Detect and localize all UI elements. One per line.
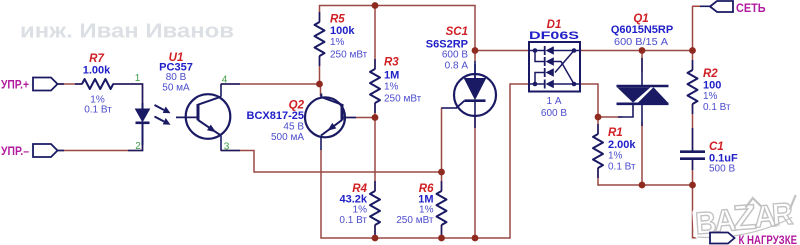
node Q1 MT1 rail bbox=[639, 182, 646, 189]
port СЕТЬ pin stub bbox=[700, 5, 710, 7]
watermark BAZAR logo bbox=[694, 195, 799, 242]
capacitor C1 bbox=[680, 150, 705, 160]
svg-text:50 мА: 50 мА bbox=[162, 83, 190, 94]
node R1 / gate bbox=[595, 114, 602, 121]
svg-text:1.00k: 1.00k bbox=[83, 65, 111, 77]
wire R3 bottom to base node bbox=[374, 103, 376, 118]
svg-text:СЕТЬ: СЕТЬ bbox=[736, 1, 766, 15]
wire SC1 cathode down bbox=[474, 116, 476, 238]
svg-text:0.1 Вт: 0.1 Вт bbox=[608, 162, 636, 173]
wire R3 top leg bbox=[374, 6, 376, 70]
opto pin3 lead bbox=[221, 150, 240, 152]
wire bridge plus to mains rail bbox=[580, 50, 693, 52]
label R4 bbox=[339, 183, 367, 226]
svg-text:2.00k: 2.00k bbox=[608, 139, 636, 151]
wire R1 node to Q1 gate bbox=[598, 116, 622, 118]
node R5 / Q2 collector / pin4 bbox=[316, 81, 323, 88]
node R4 bottom rail bbox=[372, 235, 379, 242]
node Q2 base / R3 / R4 bbox=[372, 114, 379, 121]
connector СЕТЬ bbox=[710, 1, 733, 12]
svg-text:0.8 А: 0.8 А bbox=[445, 61, 469, 72]
wire Q2 emitter down bbox=[320, 150, 322, 238]
label Q2 bbox=[247, 100, 305, 144]
node R6 top / gate riser bbox=[438, 169, 445, 176]
svg-text:250 мВт: 250 мВт bbox=[396, 215, 434, 226]
svg-text:1%: 1% bbox=[608, 151, 623, 162]
wire Q1 MT2 bbox=[641, 51, 643, 73]
opto pin4 lead bbox=[221, 83, 240, 85]
wire to К НАГРУЗКЕ bbox=[693, 185, 711, 238]
wire bridge minus jog to R1 node bbox=[580, 84, 598, 117]
svg-text:1%: 1% bbox=[353, 205, 368, 216]
resistor R5 leads bbox=[319, 12, 321, 66]
wire C1 bottom bbox=[692, 160, 694, 185]
wire R2 top lead bbox=[692, 51, 694, 71]
svg-text:1%: 1% bbox=[703, 91, 718, 102]
wire bottom right rail bbox=[598, 184, 693, 186]
svg-text:500 В: 500 В bbox=[709, 164, 735, 175]
svg-text:R1: R1 bbox=[608, 127, 623, 139]
svg-text:1 А: 1 А bbox=[546, 96, 561, 107]
wire УПР.− to pin2 bbox=[58, 150, 143, 152]
svg-text:1M: 1M bbox=[384, 70, 399, 82]
svg-text:100: 100 bbox=[703, 80, 721, 92]
svg-text:0.1 Вт: 0.1 Вт bbox=[339, 215, 367, 226]
wire R7 to opto LED pin1 bbox=[113, 84, 143, 103]
triac Q1 bbox=[617, 58, 669, 126]
wire opto pin3 to R6 top bbox=[221, 151, 442, 173]
svg-text:45 В: 45 В bbox=[283, 122, 304, 133]
svg-text:SC1: SC1 bbox=[446, 26, 468, 38]
wire R4 bottom bbox=[374, 225, 376, 238]
svg-text:Q6015N5RP: Q6015N5RP bbox=[611, 24, 673, 36]
opto U1 light arrows bbox=[155, 105, 171, 125]
resistor R4 leads bbox=[374, 181, 376, 237]
wire node to bridge AC1 bbox=[475, 50, 529, 52]
resistor R7 bbox=[82, 79, 113, 89]
svg-text:250 мВт: 250 мВт bbox=[384, 94, 422, 105]
wire R5 bottom to node bbox=[319, 56, 321, 84]
svg-text:100k: 100k bbox=[330, 25, 355, 37]
wire Q2 collector bbox=[320, 84, 322, 96]
node top rail / R3 bbox=[372, 2, 379, 9]
svg-text:К НАГРУЗКЕ: К НАГРУЗКЕ bbox=[739, 233, 798, 245]
label R3 bbox=[384, 57, 422, 105]
resistor R1 bbox=[593, 134, 603, 168]
svg-text:2: 2 bbox=[135, 141, 141, 152]
resistor R2 bbox=[688, 70, 698, 104]
transistor Q2 base lead bbox=[343, 117, 356, 119]
svg-text:600 В: 600 В bbox=[541, 108, 567, 119]
svg-text:1%: 1% bbox=[384, 82, 399, 93]
node SC1 cathode rail bbox=[472, 235, 479, 242]
svg-text:600 В/15 А: 600 В/15 А bbox=[614, 37, 668, 48]
svg-text:1: 1 bbox=[135, 73, 141, 84]
bridge diodes bbox=[546, 46, 554, 88]
wire СЕТЬ riser bbox=[693, 6, 711, 50]
svg-text:R2: R2 bbox=[703, 68, 718, 80]
wire base node to R4 bbox=[374, 118, 376, 192]
thyristor SC1 bbox=[442, 61, 497, 128]
label R1 bbox=[608, 127, 636, 173]
svg-text:500 мА: 500 мА bbox=[271, 132, 304, 143]
svg-text:1%: 1% bbox=[419, 205, 434, 216]
svg-text:R: R bbox=[771, 196, 794, 232]
svg-text:600 В: 600 В bbox=[442, 50, 468, 61]
svg-text:инж. Иван Иванов: инж. Иван Иванов bbox=[20, 21, 234, 43]
transistor Q2 bbox=[305, 94, 346, 151]
label Q1 bbox=[611, 13, 673, 48]
resistor R7 pin leads bbox=[75, 83, 82, 85]
node C1 bottom rail bbox=[689, 182, 696, 189]
wire Q2 base bbox=[346, 117, 376, 119]
connector УПР.− bbox=[33, 144, 58, 157]
connector УПР.+ bbox=[33, 78, 58, 91]
node SC1 anode bbox=[472, 47, 479, 54]
resistor R2 leads bbox=[692, 60, 694, 114]
svg-text:0.1 Вт: 0.1 Вт bbox=[84, 105, 112, 116]
label R6 bbox=[396, 183, 434, 226]
svg-text:1%: 1% bbox=[330, 37, 345, 48]
resistor R1 leads bbox=[597, 124, 599, 178]
svg-text:250 мВт: 250 мВт bbox=[330, 50, 368, 61]
opto U1 phototransistor bbox=[176, 84, 230, 151]
pin lead overlays (navy) bbox=[58, 6, 711, 238]
wire R5 top leg bbox=[319, 6, 321, 23]
svg-text:R7: R7 bbox=[89, 53, 104, 65]
wire R6 riser to SC1 gate bbox=[441, 108, 443, 172]
svg-text:УПР.–: УПР.– bbox=[1, 144, 29, 158]
wire LED bottom pin2 bbox=[142, 145, 144, 151]
label D1 bbox=[529, 19, 579, 119]
port К НАГРУЗКЕ pin stub bbox=[701, 237, 710, 239]
svg-text:BCX817-25: BCX817-25 bbox=[247, 110, 304, 122]
wire pin stubs УПР connectors bbox=[58, 83, 65, 85]
svg-text:3: 3 bbox=[224, 142, 230, 153]
node Q1 MT2 bbox=[639, 47, 646, 54]
resistor R5 bbox=[315, 22, 325, 56]
svg-text:C1: C1 bbox=[709, 141, 724, 153]
label SC1 bbox=[426, 26, 469, 72]
label U1 bbox=[159, 52, 193, 94]
opto pin2 lead bbox=[128, 145, 143, 151]
node СЕТЬ / R2 bbox=[689, 47, 696, 54]
svg-text:УПР.+: УПР.+ bbox=[1, 78, 29, 92]
thyristor SC1 anode lead bbox=[474, 64, 476, 78]
resistor R3 leads bbox=[374, 59, 376, 113]
svg-text:R3: R3 bbox=[384, 57, 399, 69]
bridge rectifier D1 bbox=[529, 42, 580, 92]
wire R1 leads bbox=[597, 117, 599, 185]
label C1 bbox=[709, 141, 738, 175]
wire SC1 anode leg bbox=[474, 6, 476, 62]
capacitor C1 leads bbox=[692, 128, 694, 170]
wire Q1 MT1 down bbox=[641, 122, 643, 185]
connector К НАГРУЗКЕ bbox=[710, 233, 735, 244]
wire bridge AC2 riser bbox=[510, 84, 529, 238]
wire opto pin4 to node R5/Q2 bbox=[221, 83, 320, 85]
opto U1 LED bbox=[136, 103, 150, 145]
svg-text:0.1 Вт: 0.1 Вт bbox=[703, 102, 731, 113]
svg-text:4: 4 bbox=[222, 75, 228, 86]
resistor R3 bbox=[370, 69, 380, 103]
svg-text:R5: R5 bbox=[330, 14, 345, 26]
svg-text:80 В: 80 В bbox=[166, 72, 187, 83]
resistor R6 bbox=[437, 191, 447, 225]
node R6 bottom rail bbox=[438, 235, 445, 242]
label R2 bbox=[703, 68, 731, 113]
wire R6 bottom bbox=[441, 172, 443, 238]
resistor R4 bbox=[370, 191, 380, 225]
wire УПР.+ to R7 bbox=[58, 83, 83, 85]
label R5 bbox=[330, 14, 368, 61]
wire top rail bbox=[320, 5, 476, 7]
resistor R6 leads bbox=[441, 181, 443, 237]
label R7 bbox=[83, 53, 112, 116]
wire R2 to C1 bbox=[692, 104, 694, 150]
wire bottom left rail bbox=[321, 237, 510, 239]
svg-text:DF06S: DF06S bbox=[529, 30, 579, 42]
